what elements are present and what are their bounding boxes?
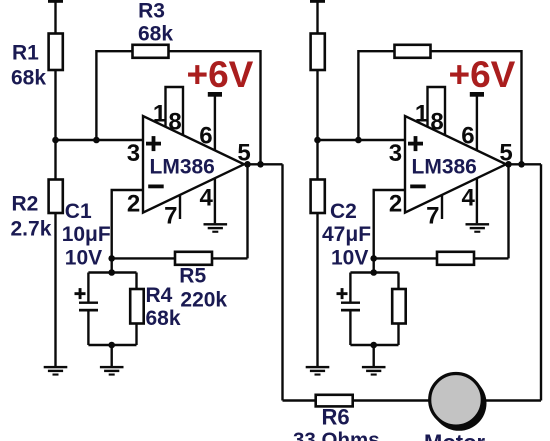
wire feedback branch up to R3	[96, 51, 133, 140]
pin 1 and 8 jumper box stage2	[428, 87, 446, 136]
resistor R5	[175, 252, 212, 265]
op-amp plus input sign	[146, 136, 161, 151]
bottom wire C2 R4b	[350, 344, 398, 346]
svg-text:+6V: +6V	[449, 54, 516, 95]
svg-text:R1: R1	[12, 42, 39, 65]
pin 1 and 8 jumper box	[166, 87, 184, 136]
pin 2 wire down to node C	[112, 190, 144, 273]
svg-text:R6: R6	[322, 405, 350, 430]
supply tee +6V stage1	[208, 92, 222, 97]
svg-text:R4: R4	[146, 284, 173, 307]
svg-text:1: 1	[153, 101, 166, 128]
wire node D horizontal	[88, 271, 136, 273]
svg-text:R3: R3	[138, 0, 165, 23]
output wire stage2	[506, 163, 541, 165]
svg-text:LM386: LM386	[412, 156, 477, 179]
wire R5 riser to output	[246, 164, 248, 258]
motor M1 body	[430, 374, 483, 427]
wire R6 to motor	[353, 399, 430, 401]
wire R1b-R2b-ground vertical	[316, 69, 318, 366]
wire supply to R1	[54, 3, 56, 35]
svg-text:220k: 220k	[180, 289, 227, 312]
op-amp U2 triangle	[405, 116, 506, 213]
op-amp minus input sign	[148, 185, 164, 189]
wire feedback branch up to R3b	[358, 51, 395, 140]
bottom wire C1 R4	[88, 344, 136, 346]
capacitor C1 plus sign	[75, 288, 86, 299]
output junction dot 1	[244, 161, 251, 168]
resistor R4	[130, 289, 144, 324]
svg-text:2.7k: 2.7k	[11, 218, 52, 241]
ground for R2b	[306, 366, 330, 376]
capacitor C2 bottom lead	[349, 312, 351, 346]
pin 4 wire stage2	[476, 178, 478, 223]
pin 2 wire down to node C2n	[374, 190, 406, 273]
capacitor C1 bottom lead	[87, 312, 89, 346]
svg-text:10V: 10V	[331, 247, 368, 270]
op-amp plus input sign stage2	[408, 136, 423, 151]
pin 7 stub wire	[179, 195, 181, 219]
svg-text:68k: 68k	[11, 67, 46, 90]
node A junction dot	[52, 137, 59, 144]
wire node C to R5	[112, 257, 248, 259]
output junction dot 2	[257, 161, 264, 168]
wire R5b riser to output	[507, 164, 509, 258]
wire left riser to bottom rail	[281, 164, 283, 400]
svg-text:8: 8	[430, 108, 443, 135]
wire node A2 to pin3	[318, 139, 407, 141]
svg-text:47μF: 47μF	[322, 223, 371, 246]
node C junction dot	[108, 255, 115, 262]
svg-text:C2: C2	[330, 200, 357, 223]
wire node A to pin3	[56, 139, 145, 141]
svg-text:Motor...: Motor...	[424, 430, 502, 441]
node B2 junction dot	[355, 137, 362, 144]
wire bottom rail left to R6	[283, 399, 317, 401]
capacitor C2 top lead	[349, 273, 351, 302]
resistor R2b	[311, 180, 325, 214]
node B junction dot	[93, 137, 100, 144]
svg-text:1: 1	[415, 101, 428, 128]
output wire stage1	[244, 163, 283, 165]
svg-text:8: 8	[168, 108, 181, 135]
svg-text:2: 2	[127, 191, 140, 218]
svg-text:3: 3	[389, 140, 402, 167]
svg-text:68k: 68k	[138, 23, 173, 46]
svg-text:4: 4	[462, 185, 476, 212]
svg-text:R2: R2	[12, 193, 39, 216]
output junction dot 1 stage2	[505, 161, 512, 168]
resistor R3	[133, 45, 169, 58]
wire R3b to output node	[431, 51, 522, 164]
svg-text:4: 4	[200, 185, 214, 212]
svg-text:10μF: 10μF	[62, 223, 111, 246]
wire node D2 horizontal	[350, 271, 398, 273]
capacitor C2 plus sign	[337, 288, 348, 299]
supply tee +6V stage2	[470, 92, 484, 97]
node E junction dot	[108, 342, 115, 349]
pin 7 stub wire stage2	[441, 195, 443, 219]
resistor R6	[316, 395, 353, 407]
pin 6 wire	[214, 96, 216, 151]
pin 6 wire stage2	[476, 96, 478, 151]
svg-text:LM386: LM386	[150, 156, 215, 179]
pin 4 wire	[214, 178, 216, 223]
svg-text:68k: 68k	[146, 307, 181, 330]
ground at pin 4 stage2	[466, 223, 490, 233]
resistor R4 branch wire	[135, 273, 137, 346]
resistor R4b	[392, 289, 406, 324]
capacitor C1 top lead	[87, 273, 89, 302]
svg-text:6: 6	[461, 122, 474, 149]
svg-text:3: 3	[127, 140, 140, 167]
wire supply to R1b	[316, 3, 318, 35]
resistor R5b	[437, 252, 474, 265]
svg-text:R5: R5	[179, 265, 206, 288]
svg-text:2: 2	[389, 191, 402, 218]
node D2 junction dot	[370, 269, 377, 276]
capacitor C2 plates	[341, 302, 360, 312]
output junction dot 2 stage2	[518, 161, 525, 168]
capacitor C1 plates	[79, 302, 98, 312]
ground for R2	[44, 366, 68, 376]
wire R1-R2-ground vertical	[54, 69, 56, 366]
resistor R1	[49, 34, 63, 71]
supply bar top stage1	[48, 0, 63, 3]
wire motor to right riser	[484, 399, 542, 401]
resistor R3b	[395, 45, 431, 58]
op-amp U1 triangle	[143, 116, 244, 213]
motor shadow	[432, 376, 487, 431]
node E2 junction dot	[370, 342, 377, 349]
ground stub stage2	[373, 345, 375, 366]
wire R3 to output node	[169, 51, 261, 164]
svg-text:7: 7	[164, 202, 177, 229]
ground for C2 R4b	[362, 366, 386, 376]
supply bar top stage2	[310, 0, 325, 3]
resistor R1b	[311, 34, 325, 71]
node A2 junction dot	[314, 137, 321, 144]
op-amp minus input sign stage2	[410, 185, 426, 189]
svg-text:10V: 10V	[65, 247, 102, 270]
ground for C1 R4	[100, 366, 124, 376]
svg-text:7: 7	[426, 202, 439, 229]
svg-text:+6V: +6V	[187, 54, 254, 95]
wire node C2n to R5b	[374, 257, 509, 259]
svg-text:C1: C1	[65, 200, 92, 223]
resistor R4b branch wire	[397, 273, 399, 346]
ground at pin 4 stage1	[204, 223, 228, 233]
svg-text:33 Ohms: 33 Ohms	[293, 429, 380, 441]
resistor R2	[49, 180, 63, 214]
ground stub stage1	[110, 345, 112, 366]
svg-text:6: 6	[199, 122, 212, 149]
node D junction dot	[108, 269, 115, 276]
node C2n junction dot	[370, 255, 377, 262]
wire right riser to output stage2	[540, 164, 542, 400]
